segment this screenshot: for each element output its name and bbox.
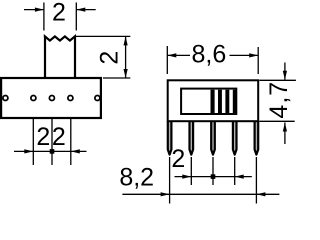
svg-text:2: 2 <box>96 51 124 65</box>
dimension: body width 8,6 extension lines <box>167 46 258 74</box>
dimension: pin pitch 2 (right view) extension lines <box>191 157 234 185</box>
dimension: pin row span 8,2 left arrow <box>161 192 170 196</box>
dimension: pin row span 8,2 right arrow <box>256 192 265 196</box>
dimension: pin pitch 2 2, left arrow <box>24 149 33 153</box>
right view: pin 4 <box>233 121 237 155</box>
left view: terminal rivet circle 5 <box>95 96 100 101</box>
dimension: pin pitch 2 (right view) centre dot <box>211 174 216 179</box>
left view: actuator knob sides <box>45 36 75 78</box>
right view: slot opening <box>181 89 236 114</box>
dimension: body height 4,7 extension lines <box>259 80 296 121</box>
left view: terminal rivet circle 3 <box>49 96 54 101</box>
right view: pin 3 <box>211 121 215 155</box>
right view: knob knurl stripe 2 <box>218 90 222 113</box>
dimension: pin pitch 2 (right view) right arrow <box>235 175 244 179</box>
svg-text:2: 2 <box>171 145 185 173</box>
svg-text:2: 2 <box>52 123 66 151</box>
dimension: pin pitch 2 2, right arrow <box>71 149 80 153</box>
left view: switch body outline <box>1 78 101 118</box>
dimension: pin row span 8,2 extension lines <box>170 157 257 204</box>
dimension: body width 8,6 left arrow <box>167 54 190 56</box>
dimension: pin pitch 2 2, centre dot <box>50 149 55 154</box>
svg-text:8,2: 8,2 <box>119 163 154 191</box>
right view: knob knurl stripe 4 <box>233 90 237 113</box>
dimension: knob width 2, extension lines <box>44 3 76 31</box>
svg-text:8,6: 8,6 <box>192 40 227 68</box>
dimension: knob height 2, arrow line <box>125 37 127 78</box>
dimension: pin pitch 2 2, dimension line <box>14 150 87 152</box>
right view: pin 5 <box>255 121 259 155</box>
dimension: body width 8,6 right arrow <box>230 54 259 56</box>
dimension: knob width 2, left arrow <box>24 9 44 11</box>
svg-text:2: 2 <box>52 0 66 27</box>
svg-text:4,7: 4,7 <box>265 81 293 119</box>
dimension: body height 4,7 top arrow <box>284 63 286 80</box>
right view: pin 2 <box>190 121 194 155</box>
dimension: knob width 2, right arrow <box>76 9 95 11</box>
dimension: pin pitch 2 (right view) dimension line <box>175 176 252 178</box>
right view: switch body outline <box>168 80 259 121</box>
dimension: knob height 2, extension lines <box>76 36 130 78</box>
left view: terminal rivet circle 1 <box>3 96 8 101</box>
svg-text:2: 2 <box>36 123 50 151</box>
right view: knob knurl stripe 1 <box>211 90 215 113</box>
dimension: body height 4,7 bottom arrow <box>284 123 286 145</box>
right view: knob knurl stripe 3 <box>225 90 229 113</box>
left view: actuator knurled top (zigzag) <box>45 36 75 40</box>
dimension: pin row span 8,2 dimension line <box>122 193 279 195</box>
dimension: pin pitch 2 (right view) left arrow <box>182 175 191 179</box>
left view: terminal rivet circle 2 <box>31 96 36 101</box>
right view: pin 1 <box>168 121 172 155</box>
left view: terminal rivet circle 4 <box>68 96 73 101</box>
dimension: pin pitch 2 2, extension lines <box>33 119 71 165</box>
